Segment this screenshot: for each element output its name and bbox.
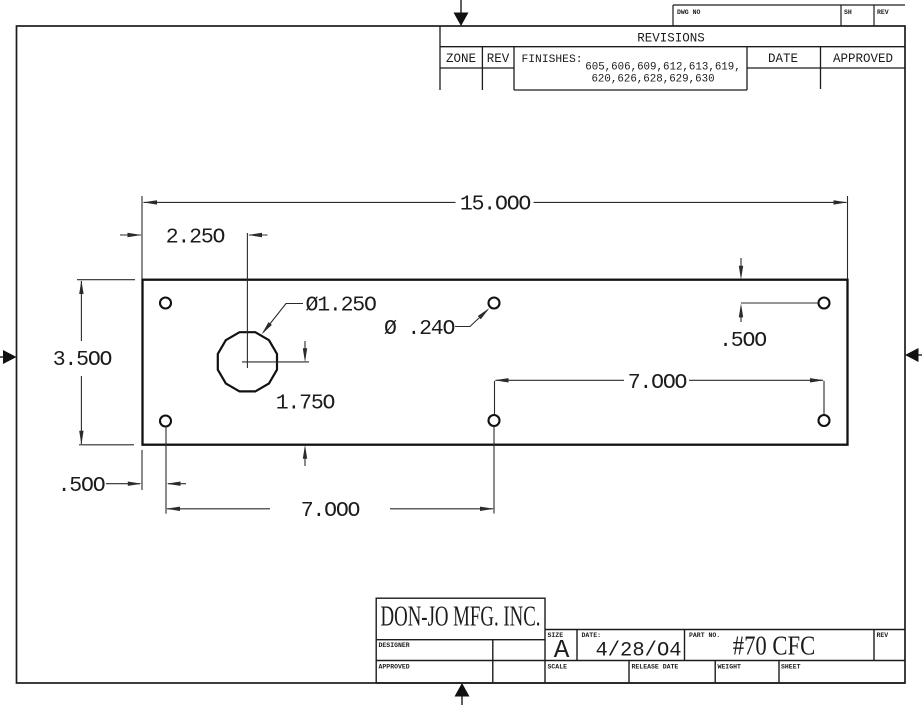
part number #70 CFC <box>733 632 816 661</box>
big hole <box>218 332 277 391</box>
svg-text:#70 CFC: #70 CFC <box>733 632 816 661</box>
center mark arrow top <box>454 0 469 26</box>
svg-text:DON-JO MFG. INC.: DON-JO MFG. INC. <box>381 602 541 633</box>
top-right header strip (DWG NO / SH / REV) <box>673 5 905 26</box>
hole bottom-left <box>160 416 171 427</box>
svg-text:620,626,628,629,630: 620,626,628,629,630 <box>591 74 714 86</box>
svg-text:SH: SH <box>844 9 852 16</box>
svg-text:APPROVED: APPROVED <box>379 664 410 671</box>
dimension .500 top right <box>741 258 818 322</box>
svg-text:A: A <box>554 635 570 665</box>
svg-text:ZONE: ZONE <box>446 52 476 66</box>
svg-text:7.OOO: 7.OOO <box>628 371 687 395</box>
svg-text:DWG NO: DWG NO <box>677 9 701 16</box>
dimension 15.000 <box>142 196 848 279</box>
dimension 7.000 right <box>495 380 825 415</box>
hole top-right <box>819 298 830 309</box>
svg-text:15.OOO: 15.OOO <box>460 193 531 217</box>
hole top-left <box>160 298 171 309</box>
svg-text:Ø1.25O: Ø1.25O <box>306 294 377 318</box>
svg-text:.5OO: .5OO <box>58 474 105 498</box>
svg-text:3.5OO: 3.5OO <box>53 348 112 372</box>
svg-text:WEIGHT: WEIGHT <box>718 664 742 671</box>
big hole centerline horizontal <box>242 361 309 363</box>
svg-text:REV: REV <box>487 52 510 66</box>
hole top-center <box>489 298 500 309</box>
big hole centerline vertical <box>246 233 248 368</box>
svg-text:DATE: DATE <box>768 52 798 66</box>
center mark arrow left <box>0 350 17 364</box>
svg-text:SHEET: SHEET <box>781 664 801 671</box>
svg-text:APPROVED: APPROVED <box>833 52 893 66</box>
svg-text:SCALE: SCALE <box>548 664 568 671</box>
svg-text:1.75O: 1.75O <box>276 392 335 416</box>
svg-text:4/28/O4: 4/28/O4 <box>595 640 681 663</box>
svg-text:DATE:: DATE: <box>582 632 602 639</box>
center mark arrow right <box>905 348 922 362</box>
svg-text:REVISIONS: REVISIONS <box>637 32 705 46</box>
hole bottom-right <box>819 415 830 426</box>
dimension 7.000 bottom left <box>166 427 494 514</box>
svg-text:2.25O: 2.25O <box>166 226 225 250</box>
svg-text:REV: REV <box>877 9 889 16</box>
company name DON-JO MFG. INC. <box>381 602 541 633</box>
svg-text:FINISHES:: FINISHES: <box>522 54 583 66</box>
svg-text:RELEASE DATE: RELEASE DATE <box>632 664 679 671</box>
svg-text:DESIGNER: DESIGNER <box>379 642 410 649</box>
svg-text:REV: REV <box>877 632 889 639</box>
svg-text:.5OO: .5OO <box>719 329 766 353</box>
title block lines <box>376 598 905 683</box>
dimension 3.500 <box>77 280 135 445</box>
svg-text:PART NO.: PART NO. <box>689 632 720 639</box>
dimension 2.250 <box>120 234 268 236</box>
revisions table <box>440 26 905 90</box>
svg-text:7.OOO: 7.OOO <box>301 499 360 523</box>
label Ø .240 with leader <box>455 310 488 327</box>
hole bottom-center <box>489 415 500 426</box>
svg-text:605,606,609,612,613,619,: 605,606,609,612,613,619, <box>585 62 741 74</box>
dimension .500 bottom left <box>106 450 186 490</box>
label Ø1.250 with leader <box>264 304 304 333</box>
dimension 1.750 <box>304 341 306 466</box>
plate outline <box>143 280 848 445</box>
svg-text:Ø .24O: Ø .24O <box>384 317 455 341</box>
center mark arrow bottom <box>455 683 470 705</box>
